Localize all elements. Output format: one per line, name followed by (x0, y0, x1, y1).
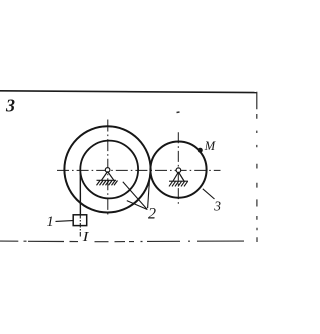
pulley pivot pin (105, 168, 110, 173)
svg-text:3: 3 (213, 199, 221, 214)
gear ground hatching (169, 181, 188, 186)
pulley support triangle (102, 172, 114, 181)
leader line A for label 2 (to inner circle) (123, 182, 148, 210)
svg-text:1: 1 (47, 214, 54, 230)
weight centerline (79, 214, 81, 237)
gear support triangle (173, 172, 184, 181)
frame top border line (0, 91, 257, 93)
gear vertical centerline (177, 132, 179, 206)
point M dot (198, 148, 203, 153)
pulley inner circle (body 2, small radius) (80, 141, 138, 199)
svg-text:M: M (204, 139, 216, 153)
svg-text:2: 2 (148, 206, 156, 223)
pulley outer circle (body 2) (64, 126, 150, 212)
leader line for label 1 (56, 220, 73, 223)
speckle mark (177, 111, 180, 114)
pulley horizontal centerline (57, 169, 221, 171)
svg-text:3: 3 (5, 96, 15, 116)
gear pivot pin (176, 168, 181, 173)
pulley ground hatching (97, 181, 118, 186)
cord from inner pulley to weight (79, 171, 81, 215)
gear circle (body 3) (150, 142, 206, 198)
gear ground line (169, 180, 188, 182)
pulley ground line (97, 179, 117, 181)
leader line B for label 2 (short barb) (127, 201, 148, 210)
pulley vertical centerline (107, 120, 109, 216)
weight 1 (square block) (73, 215, 87, 226)
svg-text:I: I (82, 229, 90, 244)
leader line C for label 2 (to circles contact point) (148, 172, 150, 208)
frame bottom dash-dot border line (0, 240, 244, 243)
leader line for label 3 (203, 189, 215, 199)
frame right border line (256, 92, 258, 242)
